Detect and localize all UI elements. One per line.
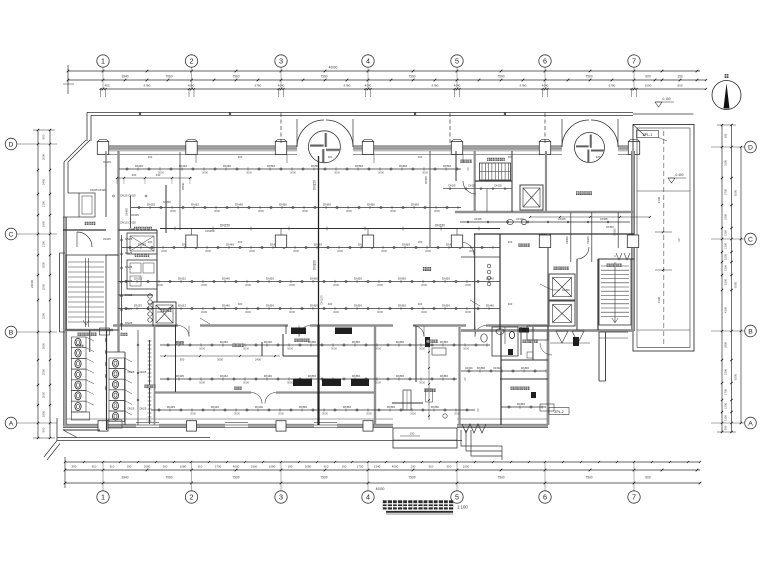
svg-text:3000: 3000 bbox=[202, 171, 208, 175]
svg-text:DN40: DN40 bbox=[264, 374, 272, 378]
svg-text:DN50: DN50 bbox=[517, 402, 525, 406]
stair S3 label bbox=[487, 158, 505, 161]
svg-text:7500: 7500 bbox=[232, 75, 239, 79]
svg-text:910: 910 bbox=[198, 465, 203, 469]
svg-text:5: 5 bbox=[455, 57, 459, 66]
svg-text:DN25: DN25 bbox=[128, 407, 135, 411]
svg-text:1080: 1080 bbox=[269, 465, 276, 469]
svg-text:1:100: 1:100 bbox=[457, 505, 468, 510]
svg-text:3000: 3000 bbox=[234, 412, 240, 416]
svg-text:DN150: DN150 bbox=[313, 180, 317, 190]
svg-text:3000: 3000 bbox=[289, 283, 295, 287]
svg-text:3000: 3000 bbox=[465, 283, 471, 287]
stair S3 top small bbox=[480, 163, 511, 180]
svg-text:DN40: DN40 bbox=[223, 164, 231, 168]
svg-text:3000: 3000 bbox=[469, 249, 475, 253]
svg-text:DN50: DN50 bbox=[299, 405, 307, 409]
svg-text:3000: 3000 bbox=[377, 283, 383, 287]
svg-text:DN50: DN50 bbox=[266, 303, 274, 307]
top dimension band lines bbox=[63, 65, 700, 94]
svg-text:DN50: DN50 bbox=[352, 374, 360, 378]
svg-text:DN50: DN50 bbox=[411, 202, 419, 206]
bottom right small room fixtures bbox=[443, 334, 487, 418]
svg-text:300: 300 bbox=[328, 155, 333, 159]
svg-text:200: 200 bbox=[132, 173, 137, 177]
north wall columns bbox=[97, 140, 108, 155]
drawing title bbox=[383, 500, 469, 514]
svg-text:DN50: DN50 bbox=[443, 164, 451, 168]
svg-text:DN25: DN25 bbox=[134, 303, 142, 307]
svg-text:6: 6 bbox=[543, 493, 547, 502]
svg-text:DN25: DN25 bbox=[586, 236, 590, 243]
svg-text:B: B bbox=[748, 328, 753, 335]
svg-text:3000: 3000 bbox=[421, 310, 427, 314]
misc dimension leaders inside plan bbox=[148, 155, 601, 306]
right block partition walls bbox=[461, 234, 634, 330]
svg-text:2: 2 bbox=[190, 493, 194, 502]
svg-text:DN50: DN50 bbox=[440, 340, 448, 344]
wall x166 left wing bbox=[165, 185, 167, 233]
svg-text:3000: 3000 bbox=[157, 283, 163, 287]
svg-text:DN25: DN25 bbox=[474, 217, 482, 221]
svg-text:390: 390 bbox=[72, 465, 77, 469]
svg-text:3000: 3000 bbox=[249, 249, 255, 253]
svg-text:9200: 9200 bbox=[733, 189, 737, 196]
svg-text:4040: 4040 bbox=[454, 84, 461, 88]
equipment dark blocks bottom rooms bbox=[291, 328, 579, 399]
svg-text:DN25: DN25 bbox=[103, 160, 111, 164]
svg-text:190: 190 bbox=[342, 465, 347, 469]
svg-text:DN50: DN50 bbox=[163, 200, 171, 204]
svg-text:DN40: DN40 bbox=[222, 276, 230, 280]
svg-text:DN80: DN80 bbox=[125, 208, 129, 216]
svg-text:DN25: DN25 bbox=[448, 184, 456, 188]
svg-text:DN25: DN25 bbox=[125, 265, 133, 269]
svg-text:DN50: DN50 bbox=[442, 276, 450, 280]
svg-text:2500: 2500 bbox=[42, 283, 46, 290]
svg-text:3000: 3000 bbox=[190, 412, 196, 416]
svg-text:300: 300 bbox=[418, 302, 423, 306]
right block wall y330 bbox=[461, 329, 634, 332]
svg-text:3000: 3000 bbox=[410, 412, 416, 416]
svg-text:29800: 29800 bbox=[30, 279, 34, 288]
svg-text:DN40: DN40 bbox=[486, 303, 494, 307]
svg-text:DN50: DN50 bbox=[398, 303, 406, 307]
SE vestibule box bbox=[527, 326, 548, 340]
north arrow compass bbox=[712, 74, 741, 109]
northwest stepped corner bbox=[63, 140, 95, 217]
hatched bench wall in toilet area bbox=[148, 340, 152, 424]
svg-text:910: 910 bbox=[92, 465, 97, 469]
svg-text:A: A bbox=[9, 420, 14, 427]
svg-text:40000: 40000 bbox=[329, 66, 338, 70]
svg-text:DN32: DN32 bbox=[516, 217, 524, 221]
svg-text:DN25: DN25 bbox=[125, 237, 133, 241]
room labels bottom band bbox=[144, 385, 155, 388]
svg-text:300: 300 bbox=[238, 240, 243, 244]
svg-text:3200: 3200 bbox=[42, 312, 46, 319]
svg-text:3000: 3000 bbox=[390, 209, 396, 213]
svg-text:200: 200 bbox=[148, 240, 153, 244]
second riser bbox=[424, 151, 430, 247]
svg-text:3000: 3000 bbox=[293, 249, 299, 253]
svg-text:2080: 2080 bbox=[144, 465, 151, 469]
svg-text:DN50: DN50 bbox=[477, 366, 485, 370]
stair S1 right bbox=[599, 254, 631, 325]
pipe row bottom 2b bbox=[461, 366, 546, 373]
svg-text:DN25: DN25 bbox=[140, 407, 147, 411]
svg-text:300: 300 bbox=[724, 425, 728, 430]
svg-text:900: 900 bbox=[42, 427, 46, 432]
svg-text:1100: 1100 bbox=[724, 230, 728, 236]
leader arrows bbox=[200, 284, 570, 324]
svg-text:7500: 7500 bbox=[320, 476, 327, 480]
svg-text:2100: 2100 bbox=[42, 240, 46, 247]
svg-text:3000: 3000 bbox=[246, 171, 252, 175]
fan F2 with door arcs bbox=[562, 119, 618, 163]
svg-text:7500: 7500 bbox=[497, 75, 504, 79]
svg-text:DN32: DN32 bbox=[220, 374, 228, 378]
hall label bbox=[423, 267, 431, 271]
svg-text:240: 240 bbox=[156, 173, 161, 177]
svg-text:4100: 4100 bbox=[724, 307, 728, 313]
svg-text:300: 300 bbox=[328, 302, 333, 306]
svg-text:60: 60 bbox=[677, 238, 681, 242]
svg-text:9200: 9200 bbox=[733, 373, 737, 380]
svg-text:4040: 4040 bbox=[542, 84, 549, 88]
left rooms door arc bbox=[77, 232, 92, 247]
top grid bubbles 1-7 bbox=[97, 55, 109, 67]
svg-text:900: 900 bbox=[42, 134, 46, 139]
SE small partitions bbox=[521, 327, 552, 360]
svg-text:-0.150: -0.150 bbox=[661, 97, 670, 101]
svg-text:6780: 6780 bbox=[432, 84, 439, 88]
svg-text:7060: 7060 bbox=[165, 476, 172, 480]
svg-text:3000: 3000 bbox=[161, 249, 167, 253]
svg-text:4: 4 bbox=[366, 57, 370, 66]
svg-text:7060: 7060 bbox=[165, 75, 172, 79]
svg-text:DN25: DN25 bbox=[613, 228, 617, 235]
dashed risers at grid 3 5 6 bbox=[281, 113, 545, 143]
svg-text:2000: 2000 bbox=[42, 261, 46, 268]
svg-text:2400: 2400 bbox=[255, 358, 261, 362]
svg-text:DN25: DN25 bbox=[125, 251, 133, 255]
svg-text:2300: 2300 bbox=[724, 214, 728, 220]
svg-text:1340: 1340 bbox=[374, 465, 381, 469]
ZPL-2 label bottom right bbox=[549, 408, 569, 415]
svg-text:3000: 3000 bbox=[454, 412, 460, 416]
svg-text:4040: 4040 bbox=[278, 84, 285, 88]
svg-text:DN25: DN25 bbox=[125, 321, 133, 325]
svg-text:300: 300 bbox=[724, 133, 728, 138]
svg-text:3: 3 bbox=[279, 57, 283, 66]
svg-text:DN40: DN40 bbox=[181, 182, 185, 190]
svg-text:DN100: DN100 bbox=[320, 295, 324, 305]
svg-text:600: 600 bbox=[677, 84, 682, 88]
svg-text:6780: 6780 bbox=[344, 84, 351, 88]
elevator 3 shaft bbox=[549, 301, 575, 326]
svg-text:DN50: DN50 bbox=[310, 303, 318, 307]
toilet area vertical pipe bbox=[128, 330, 147, 425]
svg-text:DN150: DN150 bbox=[206, 229, 215, 233]
svg-text:3000: 3000 bbox=[243, 347, 249, 351]
short pipe row below stair bbox=[443, 184, 512, 213]
right dimension ticks and numbers bbox=[721, 124, 742, 433]
svg-text:DN50: DN50 bbox=[606, 225, 614, 229]
toilet stalls right column bbox=[109, 358, 132, 422]
svg-text:DN50: DN50 bbox=[354, 276, 362, 280]
svg-text:C: C bbox=[748, 236, 753, 243]
svg-text:DN40: DN40 bbox=[255, 405, 263, 409]
svg-text:7: 7 bbox=[632, 57, 636, 66]
svg-text:DN50: DN50 bbox=[398, 276, 406, 280]
SE bathroom fixtures bbox=[492, 327, 518, 356]
pump room boxes bbox=[127, 260, 157, 289]
svg-text:D: D bbox=[9, 141, 14, 148]
svg-text:DN32: DN32 bbox=[220, 340, 228, 344]
svg-text:DN50: DN50 bbox=[355, 164, 363, 168]
svg-text:DN50: DN50 bbox=[431, 405, 439, 409]
level mark top right bbox=[655, 97, 674, 107]
svg-text:DN50: DN50 bbox=[396, 374, 404, 378]
svg-text:300: 300 bbox=[508, 155, 513, 159]
svg-text:600: 600 bbox=[645, 75, 651, 79]
svg-text:3000: 3000 bbox=[243, 381, 249, 385]
svg-text:3000: 3000 bbox=[378, 171, 384, 175]
window marks on canopy bbox=[140, 112, 505, 115]
svg-text:3000: 3000 bbox=[334, 171, 340, 175]
svg-text:200: 200 bbox=[163, 465, 168, 469]
svg-text:950: 950 bbox=[180, 358, 185, 362]
svg-text:DN25: DN25 bbox=[140, 370, 147, 374]
svg-text:3000: 3000 bbox=[302, 209, 308, 213]
east wall bbox=[631, 151, 634, 331]
svg-text:3000: 3000 bbox=[419, 347, 425, 351]
svg-text:4000: 4000 bbox=[233, 465, 240, 469]
svg-text:DN50: DN50 bbox=[402, 242, 410, 246]
stair tower outer edge bbox=[60, 253, 66, 332]
south sawtooth door symbol bbox=[462, 424, 486, 433]
door arcs on y325 wall bbox=[178, 326, 486, 337]
left dimension band lines bbox=[33, 130, 55, 438]
svg-text:2600: 2600 bbox=[42, 153, 46, 160]
svg-text:ZPL-1: ZPL-1 bbox=[643, 133, 653, 137]
svg-text:2500: 2500 bbox=[42, 368, 46, 375]
svg-text:DN50: DN50 bbox=[442, 303, 450, 307]
svg-text:DN50: DN50 bbox=[267, 164, 275, 168]
top band right extension bbox=[700, 79, 707, 90]
svg-text:4040: 4040 bbox=[188, 84, 195, 88]
svg-text:1300: 1300 bbox=[724, 243, 728, 249]
svg-text:DN50: DN50 bbox=[521, 366, 529, 370]
south porch bbox=[393, 428, 457, 448]
svg-text:3000: 3000 bbox=[278, 412, 284, 416]
svg-text:3000: 3000 bbox=[205, 249, 211, 253]
svg-text:3000: 3000 bbox=[381, 249, 387, 253]
svg-text:300: 300 bbox=[238, 155, 243, 159]
svg-text:2700: 2700 bbox=[215, 465, 222, 469]
svg-text:300: 300 bbox=[418, 155, 423, 159]
svg-text:1100: 1100 bbox=[724, 415, 728, 421]
door V symbols right corridor bbox=[616, 253, 630, 260]
top dimension numbers row2 bbox=[104, 84, 682, 88]
svg-text:DN25: DN25 bbox=[125, 307, 133, 311]
left dimension ticks and numbers bbox=[30, 129, 51, 439]
mid column row bbox=[186, 235, 197, 248]
svg-text:DN25: DN25 bbox=[468, 184, 476, 188]
svg-text:DN50: DN50 bbox=[266, 276, 274, 280]
svg-text:2: 2 bbox=[190, 57, 194, 66]
svg-text:DN25: DN25 bbox=[125, 293, 133, 297]
svg-text:3000: 3000 bbox=[289, 310, 295, 314]
toilet bottom-left corner detail bbox=[63, 420, 122, 438]
left vertical pipe with labels bbox=[121, 235, 133, 330]
svg-text:DN50: DN50 bbox=[310, 276, 318, 280]
svg-text:3940: 3940 bbox=[121, 75, 128, 79]
svg-text:9100: 9100 bbox=[657, 296, 661, 303]
svg-text:DN25: DN25 bbox=[125, 279, 133, 283]
top dimension ticks bbox=[67, 67, 699, 97]
svg-text:DN25: DN25 bbox=[176, 374, 184, 378]
svg-text:3000: 3000 bbox=[170, 209, 176, 213]
svg-text:DN32: DN32 bbox=[211, 405, 219, 409]
svg-text:DN40: DN40 bbox=[222, 303, 230, 307]
svg-text:DN50: DN50 bbox=[354, 303, 362, 307]
urinal fixtures on corridor wall bbox=[105, 338, 106, 391]
svg-text:40000: 40000 bbox=[376, 487, 385, 491]
svg-text:DN50: DN50 bbox=[343, 405, 351, 409]
svg-text:1000: 1000 bbox=[724, 254, 728, 260]
svg-text:6780: 6780 bbox=[609, 84, 616, 88]
toilet sink counter bbox=[72, 328, 110, 420]
svg-text:7500: 7500 bbox=[232, 476, 239, 480]
svg-text:3000: 3000 bbox=[322, 412, 328, 416]
svg-text:1500: 1500 bbox=[463, 465, 470, 469]
bottom dimension band lines bbox=[65, 457, 700, 488]
svg-text:5: 5 bbox=[455, 493, 459, 502]
south wall bbox=[63, 419, 548, 428]
svg-text:4000: 4000 bbox=[392, 465, 399, 469]
svg-text:910: 910 bbox=[324, 465, 329, 469]
svg-text:6: 6 bbox=[543, 57, 547, 66]
vertical dim x429 bbox=[426, 345, 433, 420]
svg-text:3000: 3000 bbox=[422, 171, 428, 175]
terrace dimension texts bbox=[655, 196, 681, 303]
svg-text:600: 600 bbox=[645, 476, 651, 480]
interior wall y392 mid bottom bbox=[155, 393, 376, 404]
wing west wall x106 bbox=[105, 151, 107, 217]
svg-text:2700: 2700 bbox=[724, 189, 728, 195]
svg-text:1: 1 bbox=[101, 493, 105, 502]
column stubs row3 to row4 bbox=[192, 229, 458, 236]
svg-text:DN32: DN32 bbox=[191, 202, 199, 206]
svg-text:DN25 DN25: DN25 DN25 bbox=[120, 194, 136, 198]
svg-text:2100: 2100 bbox=[42, 200, 46, 207]
svg-text:3: 3 bbox=[279, 493, 283, 502]
svg-text:1700: 1700 bbox=[724, 389, 728, 395]
svg-text:1080: 1080 bbox=[180, 465, 187, 469]
svg-text:1900: 1900 bbox=[42, 220, 46, 227]
svg-text:3000: 3000 bbox=[366, 412, 372, 416]
svg-text:DN40: DN40 bbox=[465, 366, 473, 370]
svg-text:3000: 3000 bbox=[201, 283, 207, 287]
svg-text:3000: 3000 bbox=[425, 249, 431, 253]
svg-text:DN25: DN25 bbox=[494, 184, 502, 188]
svg-text:DN65: DN65 bbox=[424, 176, 428, 184]
svg-text:1: 1 bbox=[101, 57, 105, 66]
pipe row 5 bbox=[118, 276, 500, 287]
svg-text:DN25: DN25 bbox=[103, 237, 111, 241]
svg-text:3000: 3000 bbox=[375, 347, 381, 351]
svg-text:465: 465 bbox=[104, 84, 109, 88]
svg-text:DN40: DN40 bbox=[235, 202, 243, 206]
svg-text:3000: 3000 bbox=[465, 310, 471, 314]
interior vertical partitions bottom band bbox=[176, 325, 549, 425]
svg-text:DN50: DN50 bbox=[352, 340, 360, 344]
svg-text:DN50: DN50 bbox=[562, 288, 570, 292]
pipe row 6 bbox=[118, 303, 500, 314]
svg-text:2400: 2400 bbox=[42, 178, 46, 185]
left wing inner walls bbox=[63, 230, 157, 330]
svg-text:DN32: DN32 bbox=[178, 303, 186, 307]
svg-text:DN25: DN25 bbox=[131, 213, 139, 217]
svg-text:DN25: DN25 bbox=[167, 405, 175, 409]
svg-text:300: 300 bbox=[418, 240, 423, 244]
pump room fixtures bbox=[148, 294, 152, 322]
svg-text:3000: 3000 bbox=[434, 209, 440, 213]
pipe row 1 bbox=[119, 164, 468, 175]
toilet block walls bbox=[63, 325, 155, 430]
right block wall y234 bbox=[474, 233, 634, 235]
svg-text:4: 4 bbox=[366, 493, 370, 502]
svg-text:C: C bbox=[9, 231, 14, 238]
svg-text:3000: 3000 bbox=[333, 310, 339, 314]
svg-text:6780: 6780 bbox=[144, 84, 151, 88]
svg-text:DN50: DN50 bbox=[387, 405, 395, 409]
svg-text:300: 300 bbox=[596, 155, 601, 159]
svg-text:1800: 1800 bbox=[42, 410, 46, 417]
svg-text:3000: 3000 bbox=[201, 310, 207, 314]
svg-text:9100: 9100 bbox=[657, 196, 661, 203]
central riser main DN150 bbox=[313, 156, 324, 425]
svg-text:3000: 3000 bbox=[287, 347, 293, 351]
svg-text:7500: 7500 bbox=[585, 75, 592, 79]
svg-text:DN150: DN150 bbox=[220, 224, 230, 228]
svg-text:3100: 3100 bbox=[724, 160, 728, 166]
svg-text:3000: 3000 bbox=[245, 310, 251, 314]
room labels right block bbox=[518, 244, 529, 247]
interior wall y325 bottom rooms bbox=[113, 324, 548, 327]
wall stub x456 bbox=[455, 151, 457, 181]
svg-text:3000: 3000 bbox=[199, 381, 205, 385]
pipe row 2 bbox=[131, 202, 461, 213]
pipe row 3 DN150 main bbox=[160, 224, 500, 231]
stair S2 left bbox=[66, 255, 106, 330]
dim line y356 bottom left rooms bbox=[160, 355, 280, 362]
svg-text:200: 200 bbox=[148, 302, 153, 306]
elevator 2 shaft bbox=[549, 274, 575, 300]
svg-text:7500: 7500 bbox=[497, 476, 504, 480]
svg-text:DN32: DN32 bbox=[178, 276, 186, 280]
svg-text:2080: 2080 bbox=[305, 465, 312, 469]
svg-text:9200: 9200 bbox=[733, 281, 737, 288]
svg-text:190: 190 bbox=[411, 465, 416, 469]
svg-text:DN15 DN25: DN15 DN25 bbox=[120, 221, 136, 225]
svg-text:1500: 1500 bbox=[645, 84, 652, 88]
bottom dimension numbers bbox=[72, 465, 651, 492]
svg-text:4040: 4040 bbox=[365, 84, 372, 88]
svg-text:DN50: DN50 bbox=[308, 374, 316, 378]
